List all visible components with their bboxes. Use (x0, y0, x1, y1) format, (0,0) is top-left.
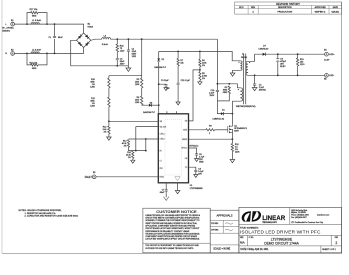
wire C3 branch (159, 84, 166, 87)
svg-text:1%: 1% (124, 145, 127, 147)
wire R14 gnd (132, 159, 134, 161)
svg-text:REV: REV (251, 7, 256, 9)
capacitor C11 (177, 80, 191, 85)
svg-text:CT: CT (160, 160, 162, 162)
svg-text:LAYOUT MAY SIGNIFICANTLY AFFEC: LAYOUT MAY SIGNIFICANTLY AFFECT CIRCUIT … (145, 238, 200, 241)
svg-text:CUSTOMER NOTICE: CUSTOMER NOTICE (156, 209, 197, 214)
ground R14 (131, 160, 135, 163)
ground bias (230, 73, 235, 76)
svg-text:BAV20W-7-F: BAV20W-7-F (143, 111, 155, 114)
capacitor C3 (161, 80, 170, 90)
inductor L1 (31, 20, 41, 24)
svg-text:THIS CIRCUIT IS PROPRIETARY TO: THIS CIRCUIT IS PROPRIETARY TO LINEAR TE… (145, 244, 199, 247)
diode D7 (258, 46, 269, 56)
svg-text:1%: 1% (128, 157, 131, 159)
wire bus to snubber (216, 39, 218, 101)
svg-text:TITLE: SCHEMATIC: TITLE: SCHEMATIC (240, 226, 259, 229)
wire D2 leg (158, 51, 160, 113)
node out2-R19 (297, 74, 299, 76)
node bus-C2 (127, 38, 129, 40)
svg-text:FBX: FBX (160, 168, 163, 170)
wire FB drop (145, 139, 147, 151)
svg-text:FAULT: FAULT (85, 176, 93, 179)
terminal E1 (5, 20, 14, 26)
wire C7 leg (165, 183, 167, 193)
svg-text:3.3mH: 3.3mH (102, 44, 109, 46)
svg-text:450V: 450V (120, 64, 125, 66)
svg-text:600V: 600V (234, 131, 239, 133)
wire R10 gnd (231, 152, 233, 160)
wire VINSNS line (109, 120, 158, 122)
node out-R19 (297, 53, 299, 55)
resistor R12 (103, 126, 110, 134)
node R4-R8 (199, 69, 201, 71)
resistor R17 (30, 9, 39, 18)
node out-C9 (277, 53, 279, 55)
svg-text:LINEAR TECHNOLOGY HAS MADE A B: LINEAR TECHNOLOGY HAS MADE A BEST EFFORT… (145, 214, 200, 217)
node bus-R32 (116, 38, 118, 40)
wire R18 loop (27, 53, 47, 65)
wire R4 leg (199, 51, 201, 71)
capacitor C10 (209, 90, 219, 97)
node D6-VIN (158, 104, 160, 106)
svg-text:GEIPER G.: GEIPER G. (315, 11, 327, 13)
node VIN-C3 (158, 83, 160, 85)
terminal E5 (324, 73, 334, 80)
diode D6 (143, 103, 155, 115)
wire bridge neg rail (71, 40, 129, 66)
capacitor C4 (116, 59, 125, 66)
resistor R11 (90, 97, 110, 108)
wire snubber bottom (217, 94, 229, 114)
svg-text:R17 10k: R17 10k (30, 9, 39, 11)
svg-text:250V: 250V (210, 95, 215, 97)
svg-text:ISOLATED LED DRIVER WITH PFC: ISOLATED LED DRIVER WITH PFC (240, 230, 321, 236)
svg-text:L1 3.3mH: L1 3.3mH (32, 20, 42, 22)
svg-text:1%: 1% (202, 65, 205, 67)
ground R10 (230, 160, 235, 163)
wire primary bottom (232, 101, 240, 124)
svg-text:ELEC: ELEC (280, 66, 286, 68)
ground C6 (195, 159, 199, 162)
svg-text:LT3799EMSE: LT3799EMSE (190, 188, 203, 190)
wire R7 leg (177, 51, 179, 102)
svg-text:SHEET 1 OF 1: SHEET 1 OF 1 (322, 249, 336, 251)
svg-text:1%: 1% (104, 131, 107, 133)
op-amp U1 LT3799EMSE (158, 111, 203, 190)
svg-text:PERFORMANCE OR RELIABILITY. C: PERFORMANCE OR RELIABILITY. CONTACT LINE… (145, 230, 190, 233)
svg-text:26:23:1: 26:23:1 (241, 57, 247, 59)
svg-text:INTV(CC): INTV(CC) (190, 145, 199, 147)
resistor R9 (206, 126, 215, 136)
ground R12 (107, 137, 112, 140)
wire R6-D6 (142, 104, 149, 106)
bridge rectifier B1 (77, 23, 94, 47)
wire snubber top (217, 84, 240, 88)
ground C8 (194, 175, 198, 178)
wire R32 C4 leg (116, 39, 118, 66)
approvals box (210, 210, 239, 253)
ground chassis (126, 66, 131, 72)
capacitor C8 (194, 168, 204, 175)
wire C8 branch (189, 167, 196, 174)
node snubber R3 (228, 83, 230, 85)
wire FB line (129, 138, 159, 140)
customer notice box (143, 208, 210, 253)
svg-text:DATE: DATE (333, 6, 339, 9)
svg-text:LED+: LED+ (329, 54, 335, 56)
node comp-b (145, 150, 147, 152)
wire gate line (189, 129, 228, 131)
ground C5 (252, 88, 257, 91)
wire C2 leg (127, 39, 129, 66)
resistor R3 (223, 86, 231, 94)
node sense (232, 138, 234, 140)
wire L rail (14, 24, 83, 33)
resistor R7 (177, 58, 184, 66)
svg-text:BAV20W-7-F: BAV20W-7-F (154, 66, 166, 69)
svg-text:50/60Hz: 50/60Hz (2, 31, 10, 33)
wire ycap leg (254, 75, 256, 87)
wire R16-R11 (108, 88, 110, 97)
input rating label (2, 26, 14, 32)
svg-text:www.linear.com: www.linear.com (317, 214, 330, 217)
resistor R18 (30, 62, 39, 70)
svg-text:DESCRIPTION: DESCRIPTION (278, 7, 292, 9)
wire R17 loop (27, 13, 47, 25)
ground C3 (164, 88, 168, 91)
node neg-C4 (116, 65, 118, 67)
frame border bottom (2, 252, 342, 254)
svg-text:HOWEVER, IT REMAINS THE CUSTOM: HOWEVER, IT REMAINS THE CUSTOMER'S RESPO… (145, 219, 200, 222)
node snubber top (217, 83, 219, 85)
svg-text:CTRL1: CTRL1 (160, 133, 165, 135)
svg-text:Fax: (408)434-0507: Fax: (408)434-0507 (291, 217, 306, 219)
node L-R17a (26, 23, 28, 25)
svg-text:E3: E3 (93, 172, 95, 174)
svg-text:400VAC: 400VAC (259, 88, 267, 91)
svg-text:APPLICATION. COMPONENT SUBSTI: APPLICATION. COMPONENT SUBSTITUTION AND … (145, 224, 195, 227)
ground R7C11 (176, 102, 180, 105)
capacitor C5 (253, 84, 267, 91)
svg-text:L2 3.3mH: L2 3.3mH (32, 49, 42, 51)
capacitor C7 (160, 189, 168, 194)
ground C7 (164, 193, 169, 200)
wire CTRL1 line (136, 127, 159, 151)
svg-text:SENSE: SENSE (182, 139, 187, 141)
svg-text:CIRCUIT THAT MEETS CUSTOMER-SU: CIRCUIT THAT MEETS CUSTOMER-SUPPLIED SPE… (145, 217, 200, 220)
wire source-R10 (231, 134, 233, 144)
node out2-ycap (254, 74, 256, 76)
svg-text:DATE: Friday, April 29, 2011: DATE: Friday, April 29, 2011 (240, 248, 269, 251)
svg-text:NOTES: UNLESS OTHERWISE SPECIF: NOTES: UNLESS OTHERWISE SPECIFIED, (19, 210, 63, 212)
svg-text:10k: 10k (180, 63, 183, 65)
svg-text:PCB DES.: PCB DES. (211, 223, 219, 225)
wire bias rail (159, 51, 241, 60)
svg-text:2: 2 (335, 241, 337, 245)
resistor R32 (116, 44, 125, 52)
node drain-D1 (232, 113, 234, 115)
svg-text:CTRL2: CTRL2 (160, 139, 165, 141)
svg-text:PRODUCTION: PRODUCTION (277, 11, 292, 13)
node FB-145 (145, 138, 147, 140)
wire FBX route (189, 70, 200, 121)
resistor R6 (135, 96, 143, 105)
title block (239, 207, 342, 252)
wire bus from bridge (91, 39, 102, 40)
ground R8 (198, 82, 202, 85)
wire D6 out (152, 104, 159, 106)
svg-text:DEMO CIRCUIT 1744A: DEMO CIRCUIT 1744A (264, 242, 299, 246)
wire N rail (14, 48, 83, 54)
terminal FAULT (85, 172, 96, 179)
svg-text:APPROVED: APPROVED (315, 6, 327, 9)
inductor L2 (31, 49, 41, 53)
node bus-Rdiv (141, 38, 143, 40)
frame border left (1, 0, 3, 253)
wire bias gnd lead (233, 70, 241, 73)
diode D1 (212, 109, 225, 120)
svg-text:INTVCC: INTVCC (181, 148, 188, 150)
ground IC (175, 191, 180, 194)
wire divider feed (109, 39, 142, 78)
resistor R19 (296, 58, 305, 66)
svg-text:C3 10µF: C3 10µF (161, 80, 169, 82)
svg-text:TECHNOLOGY: TECHNOLOGY (262, 222, 277, 224)
inductor L3 (102, 35, 111, 46)
node N-R18b (46, 53, 48, 55)
node C1 bottom (54, 53, 56, 55)
svg-text:REVISION HISTORY: REVISION HISTORY (276, 3, 300, 6)
svg-text:APPROVALS: APPROVALS (216, 214, 232, 218)
svg-text:LINEAR: LINEAR (262, 215, 286, 222)
capacitor C2 (127, 49, 137, 59)
wire secondary top (248, 54, 263, 61)
svg-text:VIN_SNS: VIN_SNS (160, 126, 167, 128)
svg-text:68nF: 68nF (58, 37, 63, 39)
node VINSNS tap (108, 120, 110, 122)
wire sense line (189, 138, 233, 140)
node L-R17b (46, 23, 48, 25)
wire R8 gnd (199, 80, 201, 82)
resistor R5 (135, 78, 143, 88)
wire FAULT line (96, 176, 158, 178)
node N-R18a (26, 53, 28, 55)
capacitor C9 (276, 59, 287, 68)
svg-text:90 - 270VAC: 90 - 270VAC (2, 26, 14, 29)
svg-text:WE750811550(RV10): WE750811550(RV10) (236, 106, 256, 108)
svg-text:SUPPLIED FOR USE WITH LINEAR T: SUPPLIED FOR USE WITH LINEAR TECHNOLOGY … (145, 247, 194, 250)
svg-text:LTC Confidential-For Customer: LTC Confidential-For Customer Use Only (291, 221, 323, 224)
svg-text:14.4V: 14.4V (324, 60, 330, 62)
svg-text:VERIFY PROPER AND RELIABLE OPE: VERIFY PROPER AND RELIABLE OPERATION IN … (145, 222, 197, 225)
wire gnd pin (177, 183, 179, 191)
svg-text:CIRCUIT BOARD LAYOUT MAY SIGNI: CIRCUIT BOARD LAYOUT MAY SIGNIFICANTLY A… (145, 227, 200, 230)
node out2-C9 (277, 74, 279, 76)
wire R12 gnd (108, 134, 110, 137)
svg-text:FB: FB (160, 151, 162, 153)
transistor Q1 (228, 124, 248, 134)
svg-text:ECO: ECO (239, 7, 244, 9)
wire D1 to drain (224, 113, 233, 115)
frame border right (341, 2, 343, 253)
resistor R8 (199, 72, 207, 81)
svg-text:CMMR1U-02: CMMR1U-02 (212, 118, 225, 120)
svg-text:R18 10k: R18 10k (30, 62, 39, 64)
svg-text:VIN: VIN (160, 121, 163, 123)
terminal E4 (324, 50, 335, 62)
wire bus main (111, 38, 218, 40)
svg-text:N/A: N/A (240, 241, 245, 245)
wire R5-R6 (141, 88, 143, 96)
svg-text:C11 0.1µF: C11 0.1µF (181, 80, 191, 82)
svg-text:SCALE = NONE: SCALE = NONE (213, 248, 230, 251)
wire out+ rail (266, 53, 325, 55)
svg-text:TECHNOLOGY APPLICATIONS ENGINE: TECHNOLOGY APPLICATIONS ENGINEERING FOR … (145, 232, 200, 235)
resistor R10 (231, 144, 240, 154)
resistor R4 (199, 59, 207, 67)
wire C1 leg (54, 24, 56, 53)
resistor R14 (126, 151, 134, 159)
svg-text:COMPONENT SUBSTITUTION AND PRI: COMPONENT SUBSTITUTION AND PRINTED CIRCU… (145, 235, 197, 238)
revision history table (235, 2, 342, 14)
svg-text:SIZE: SIZE (240, 237, 244, 239)
terminal E2 (5, 49, 14, 55)
svg-text:1. RESISTOR VALUES ARE 1%.: 1. RESISTOR VALUES ARE 1%. (25, 212, 57, 215)
svg-text:2. CAPACITOR AND RESISTOR CASE: 2. CAPACITOR AND RESISTOR CASE SIZE ARE … (25, 215, 79, 218)
svg-text:CMSH3-40: CMSH3-40 (258, 49, 269, 51)
svg-text:HD06: HD06 (88, 27, 94, 29)
node bias-R7 (177, 51, 179, 53)
wire R13 bottom (129, 147, 146, 150)
wire R11-R12 (108, 107, 110, 126)
resistor R13 (122, 140, 130, 148)
diode D2 (154, 58, 166, 69)
transformer T1 (236, 54, 256, 109)
svg-text:68nF: 68nF (160, 192, 165, 194)
svg-text:IC NO.: IC NO. (249, 237, 254, 239)
wire C9 leg (277, 54, 279, 75)
capacitor C6 (195, 154, 205, 164)
wire R19 legs (297, 54, 299, 75)
node bias-R4 (199, 51, 201, 53)
capacitor C1 (48, 36, 63, 39)
node comp-a (135, 150, 137, 152)
svg-text:1%: 1% (202, 78, 205, 80)
resistor R16 (90, 78, 110, 89)
svg-text:LED-: LED- (329, 75, 334, 77)
node C1 top (54, 23, 56, 25)
notes (19, 210, 79, 218)
wire out- rail (248, 74, 325, 76)
svg-text:02/14/11: 02/14/11 (331, 11, 340, 13)
net INTVCC (189, 145, 199, 153)
